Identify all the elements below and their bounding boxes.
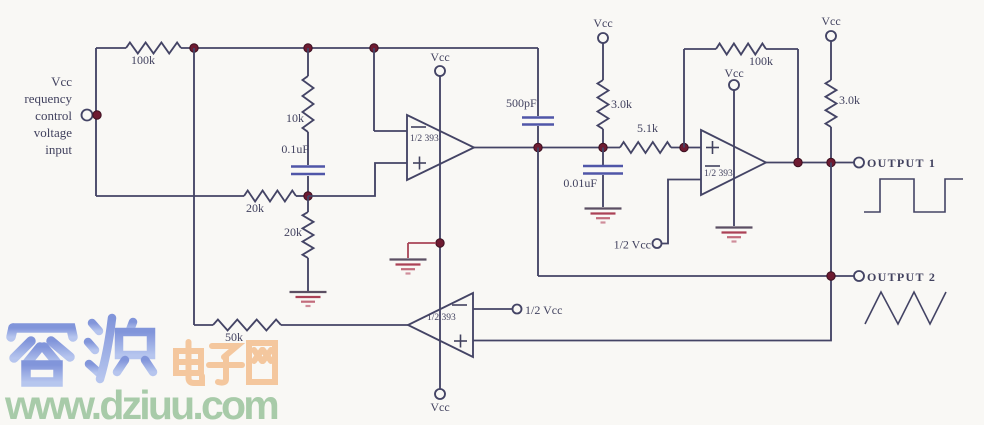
waveform triangle wave at OUTPUT 2 xyxy=(865,292,946,324)
resistor 5.1k xyxy=(620,121,671,153)
svg-text:3.0k: 3.0k xyxy=(611,97,632,111)
wire op-amp U1 output row xyxy=(474,147,701,149)
node K junction OUTPUT2 xyxy=(827,272,835,280)
node H junction 5.1k / 100k feedback / U2 non-inverting xyxy=(680,143,688,151)
wire 100k feedback loop xyxy=(684,49,798,163)
resistor 3.0k (right) xyxy=(826,41,861,163)
resistor 50k xyxy=(194,320,408,345)
wire Vcc line through U1 down to U3 xyxy=(439,76,441,389)
wire ground tap red link xyxy=(408,243,436,258)
wire top rail xyxy=(96,47,538,49)
node J junction OUTPUT1 xyxy=(827,158,835,166)
svg-text:Vcc: Vcc xyxy=(430,50,449,64)
svg-text:10k: 10k xyxy=(286,111,304,125)
wire OUTPUT 2 feed xyxy=(538,148,854,277)
svg-text:control: control xyxy=(35,108,72,123)
terminal 1/2 Vcc for U2 xyxy=(614,238,662,252)
svg-text:OUTPUT 2: OUTPUT 2 xyxy=(867,270,936,284)
power Vcc terminal for 3.0k right xyxy=(821,14,840,41)
svg-text:www.dziuu.com: www.dziuu.com xyxy=(4,382,277,425)
node B junction top rail / 10k xyxy=(304,44,312,52)
svg-text:20k: 20k xyxy=(246,201,264,215)
ground below 0.01uF xyxy=(585,209,622,223)
terminal frequency control voltage input xyxy=(82,110,93,121)
svg-text:Vcc: Vcc xyxy=(51,74,72,89)
wire op-amp U2 output xyxy=(766,162,854,164)
ground beside op-amp U1/U3 xyxy=(390,260,427,274)
label input description text xyxy=(24,74,72,157)
resistor 20k (vertical) xyxy=(284,196,314,291)
svg-text:1/2 Vcc: 1/2 Vcc xyxy=(614,238,651,252)
node D junction 20k / 0.1uF / 20k / op-amp U1 non-inverting xyxy=(304,192,312,200)
svg-text:Vcc: Vcc xyxy=(593,16,612,30)
wire left input rail vertical xyxy=(95,48,97,196)
capacitor C 0.1uF xyxy=(281,132,325,196)
resistor 100k (feedback) xyxy=(716,44,773,69)
resistor 10k xyxy=(286,48,314,132)
watermark character yuan xyxy=(88,318,157,381)
resistor 100k (top left) xyxy=(126,43,181,68)
svg-text:5.1k: 5.1k xyxy=(637,121,658,135)
capacitor C 500pF xyxy=(506,48,554,148)
svg-text:0.1uF: 0.1uF xyxy=(281,142,309,156)
svg-text:1/2 393: 1/2 393 xyxy=(704,169,733,179)
ground below 20k xyxy=(290,292,327,306)
svg-text:1/2 393: 1/2 393 xyxy=(427,313,456,323)
svg-text:1/2 393: 1/2 393 xyxy=(410,134,439,144)
node A junction top rail / second rail xyxy=(190,44,198,52)
node F junction U1 output / 500pF / OUTPUT2 riser xyxy=(534,143,542,151)
wire op-amp U2 inverting input from 1/2 Vcc xyxy=(662,180,701,244)
svg-text:3.0k: 3.0k xyxy=(839,93,860,107)
waveform square wave at OUTPUT 1 xyxy=(864,179,963,212)
wire OUTPUT1 to OUTPUT2 vertical xyxy=(473,163,831,341)
resistor 3.0k (left) xyxy=(598,43,633,148)
svg-text:50k: 50k xyxy=(225,330,243,344)
svg-text:1/2 Vcc: 1/2 Vcc xyxy=(525,303,562,317)
wire Vcc line through U2 xyxy=(733,90,735,226)
svg-text:100k: 100k xyxy=(131,53,155,67)
wire second rail vertical to 50k xyxy=(193,48,195,325)
ground below op-amp U2 xyxy=(716,228,753,242)
op-amp U2 1/2 393 xyxy=(701,130,766,195)
terminal 1/2 Vcc for U3 xyxy=(513,303,563,317)
op-amp U3 1/2 393 (points left) xyxy=(408,293,473,357)
node C junction top rail / op-amp U1 inverting riser xyxy=(370,44,378,52)
op-amp U1 1/2 393 xyxy=(407,115,474,180)
svg-text:Vcc: Vcc xyxy=(724,66,743,80)
svg-text:100k: 100k xyxy=(749,54,773,68)
power Vcc terminal op-amp U1 xyxy=(430,50,449,76)
svg-text:20k: 20k xyxy=(284,225,302,239)
watermark characters dian zi wang xyxy=(176,342,275,383)
wire op-amp U3 inverting input xyxy=(473,308,512,310)
node E junction Vcc line / ground tap xyxy=(436,239,444,247)
power Vcc terminal op-amp U2 xyxy=(724,66,743,90)
power Vcc terminal for 3.0k xyxy=(593,16,612,43)
terminal OUTPUT 1 xyxy=(854,156,936,170)
svg-text:voltage: voltage xyxy=(34,125,72,140)
terminal OUTPUT 2 xyxy=(854,270,936,284)
svg-text:Vcc: Vcc xyxy=(821,14,840,28)
resistor 20k (horizontal) xyxy=(96,191,308,216)
node G junction 3.0k / 0.01uF / row xyxy=(599,143,607,151)
svg-text:input: input xyxy=(45,142,72,157)
svg-text:500pF: 500pF xyxy=(506,96,537,110)
svg-text:OUTPUT 1: OUTPUT 1 xyxy=(867,156,936,170)
capacitor C 0.01uF xyxy=(563,148,623,208)
svg-text:0.01uF: 0.01uF xyxy=(563,176,597,190)
node I junction U2 output / feedback xyxy=(794,158,802,166)
node L input junction xyxy=(93,111,101,119)
svg-text:requency: requency xyxy=(24,91,72,106)
power Vcc terminal op-amp U3 (bottom) xyxy=(430,389,449,414)
svg-text:Vcc: Vcc xyxy=(430,400,449,414)
wire op-amp U1 non-inverting input xyxy=(308,163,407,196)
wire op-amp U1 inverting input riser xyxy=(374,48,407,131)
watermark character rong xyxy=(11,313,73,382)
